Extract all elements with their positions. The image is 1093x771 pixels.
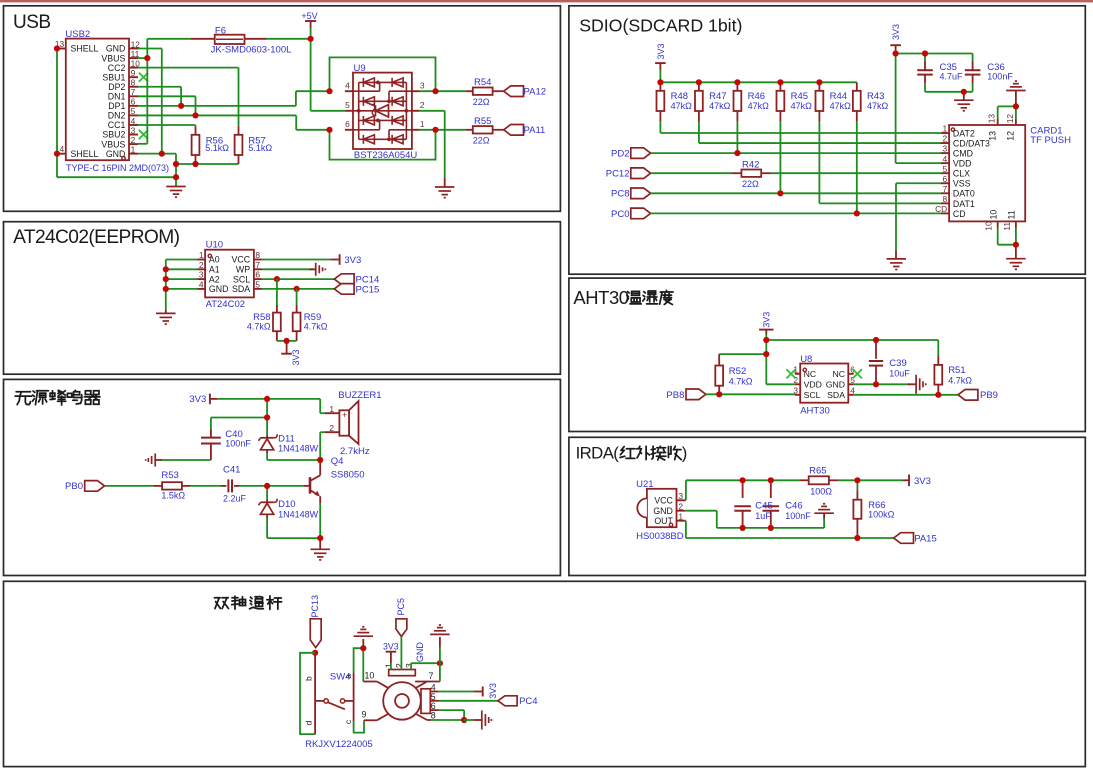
svg-text:GND: GND [415, 642, 425, 663]
svg-text:AHT30: AHT30 [573, 287, 628, 308]
svg-text:3: 3 [943, 144, 948, 154]
svg-text:1N4148W: 1N4148W [278, 509, 319, 519]
svg-text:PB9: PB9 [980, 390, 998, 401]
svg-text:3V3: 3V3 [383, 641, 399, 651]
svg-text:8: 8 [943, 194, 948, 204]
svg-text:1: 1 [199, 250, 204, 260]
svg-text:JK-SMD0603-100L: JK-SMD0603-100L [211, 45, 292, 56]
svg-text:13: 13 [987, 131, 997, 141]
svg-text:10: 10 [984, 221, 994, 231]
svg-text:2.7kHz: 2.7kHz [340, 446, 370, 457]
svg-text:2.2uF: 2.2uF [223, 494, 247, 504]
svg-text:U8: U8 [800, 354, 812, 365]
svg-text:2: 2 [678, 501, 683, 511]
svg-text:U21: U21 [636, 479, 653, 490]
svg-text:3: 3 [678, 491, 683, 501]
svg-text:8: 8 [255, 250, 260, 260]
svg-text:DAT1: DAT1 [953, 199, 975, 209]
svg-text:U10: U10 [206, 240, 223, 251]
svg-text:VDD: VDD [953, 159, 972, 169]
svg-text:5: 5 [345, 100, 350, 110]
svg-text:100nF: 100nF [987, 72, 1013, 82]
svg-text:3: 3 [793, 385, 798, 395]
svg-text:c: c [343, 719, 353, 724]
svg-text:WP: WP [236, 265, 250, 275]
svg-text:VDD: VDD [804, 380, 822, 390]
svg-text:7: 7 [131, 87, 136, 97]
svg-text:VCC: VCC [232, 255, 251, 265]
svg-text:NC: NC [832, 369, 845, 379]
svg-text:PC4: PC4 [519, 696, 537, 707]
svg-text:R52: R52 [729, 366, 746, 377]
svg-text:3: 3 [199, 270, 204, 280]
svg-text:22Ω: 22Ω [473, 135, 490, 145]
svg-text:PC15: PC15 [356, 284, 380, 295]
svg-text:PC5: PC5 [396, 598, 406, 616]
svg-text:4: 4 [199, 280, 204, 290]
svg-text:GND: GND [106, 44, 126, 54]
svg-text:4.7kΩ: 4.7kΩ [729, 377, 753, 387]
svg-text:a: a [343, 674, 353, 679]
svg-text:6: 6 [255, 270, 260, 280]
svg-text:10uF: 10uF [889, 368, 910, 378]
svg-text:+5V: +5V [301, 11, 317, 21]
svg-text:2: 2 [131, 135, 136, 145]
svg-text:7: 7 [255, 260, 260, 270]
svg-text:CMD: CMD [953, 149, 973, 159]
svg-text:AHT30: AHT30 [800, 406, 830, 417]
svg-text:PC12: PC12 [606, 169, 630, 180]
svg-text:8: 8 [131, 78, 136, 88]
svg-text:CD: CD [953, 209, 966, 219]
svg-text:5.1kΩ: 5.1kΩ [248, 143, 272, 153]
svg-text:PC0: PC0 [611, 209, 629, 220]
svg-text:R65: R65 [809, 466, 826, 477]
svg-text:8: 8 [431, 710, 436, 720]
svg-text:HS0038BD: HS0038BD [636, 531, 684, 542]
svg-text:5: 5 [131, 106, 136, 116]
svg-text:VSS: VSS [953, 179, 971, 189]
svg-text:7: 7 [943, 184, 948, 194]
svg-text:CC2: CC2 [108, 63, 126, 73]
svg-text:C41: C41 [223, 465, 240, 476]
svg-text:R42: R42 [742, 159, 759, 170]
svg-text:3: 3 [420, 81, 425, 91]
svg-text:1: 1 [131, 144, 136, 154]
svg-text:100kΩ: 100kΩ [868, 509, 895, 519]
svg-text:F6: F6 [215, 26, 226, 37]
svg-text:SDA: SDA [827, 390, 845, 400]
svg-text:4.7kΩ: 4.7kΩ [948, 375, 972, 385]
svg-text:BST236A054U: BST236A054U [354, 150, 418, 161]
svg-text:SHELL: SHELL [71, 149, 99, 159]
svg-text:PA15: PA15 [914, 534, 937, 545]
svg-text:DAT0: DAT0 [953, 189, 975, 199]
svg-text:): ) [682, 443, 688, 462]
svg-text:GND: GND [826, 380, 845, 390]
svg-text:4: 4 [131, 116, 136, 126]
svg-text:3V3: 3V3 [189, 394, 206, 405]
svg-text:PD2: PD2 [611, 149, 629, 160]
svg-text:CLX: CLX [953, 169, 970, 179]
svg-text:5: 5 [255, 280, 260, 290]
svg-text:IRDA(: IRDA( [576, 443, 620, 462]
svg-text:SCL: SCL [804, 390, 821, 400]
svg-text:VBUS: VBUS [101, 139, 125, 149]
svg-text:1: 1 [678, 511, 683, 521]
svg-text:2: 2 [199, 260, 204, 270]
svg-text:A0: A0 [209, 255, 220, 265]
svg-text:PB0: PB0 [65, 481, 83, 492]
svg-text:10: 10 [365, 670, 375, 680]
svg-text:22Ω: 22Ω [742, 179, 759, 189]
svg-text:11: 11 [1002, 222, 1012, 231]
svg-text:SBU1: SBU1 [102, 72, 125, 82]
svg-text:3V3: 3V3 [488, 683, 498, 699]
svg-text:PA11: PA11 [524, 125, 546, 136]
svg-text:U9: U9 [354, 63, 366, 74]
svg-text:11: 11 [1007, 210, 1017, 219]
svg-text:A1: A1 [209, 265, 220, 275]
svg-text:C46: C46 [785, 500, 802, 511]
svg-text:5: 5 [943, 164, 948, 174]
svg-text:VBUS: VBUS [101, 53, 125, 63]
svg-text:PC13: PC13 [310, 595, 320, 618]
svg-text:2: 2 [420, 100, 425, 110]
svg-text:6: 6 [345, 119, 350, 129]
svg-text:DP1: DP1 [108, 101, 125, 111]
svg-text:10: 10 [989, 210, 999, 220]
svg-text:3V3: 3V3 [891, 24, 901, 40]
svg-text:SBU2: SBU2 [102, 130, 125, 140]
svg-text:100nF: 100nF [225, 439, 251, 449]
svg-text:4.7kΩ: 4.7kΩ [304, 321, 328, 331]
svg-text:GND: GND [653, 506, 673, 516]
svg-text:9: 9 [362, 709, 367, 719]
svg-text:3: 3 [131, 125, 136, 135]
svg-text:47kΩ: 47kΩ [671, 101, 693, 111]
svg-text:4: 4 [345, 81, 350, 91]
svg-text:3V3: 3V3 [656, 43, 666, 59]
svg-text:1: 1 [793, 364, 798, 374]
svg-text:RKJXV1224005: RKJXV1224005 [305, 739, 373, 750]
svg-text:DN2: DN2 [108, 111, 126, 121]
svg-text:100nF: 100nF [785, 511, 811, 521]
svg-text:1uF: 1uF [755, 511, 771, 521]
svg-text:1: 1 [943, 124, 948, 134]
svg-text:4.7uF: 4.7uF [940, 72, 964, 82]
svg-text:R55: R55 [474, 116, 491, 127]
svg-text:12: 12 [1005, 114, 1015, 124]
svg-text:47kΩ: 47kΩ [867, 101, 889, 111]
svg-text:SDIO(SDCARD 1bit): SDIO(SDCARD 1bit) [579, 16, 742, 36]
svg-text:BUZZER1: BUZZER1 [338, 390, 381, 401]
svg-text:47kΩ: 47kΩ [791, 101, 813, 111]
svg-text:SCL: SCL [233, 274, 250, 284]
svg-text:3V3: 3V3 [914, 476, 931, 487]
svg-text:SDA: SDA [232, 284, 250, 294]
svg-text:OUT: OUT [654, 516, 673, 526]
svg-text:CD/DAT3: CD/DAT3 [953, 138, 990, 148]
svg-text:4.7kΩ: 4.7kΩ [247, 321, 271, 331]
svg-text:3V3: 3V3 [291, 349, 301, 365]
svg-text:TYPE-C 16PIN 2MD(073): TYPE-C 16PIN 2MD(073) [66, 163, 169, 173]
svg-text:6: 6 [131, 97, 136, 107]
svg-text:SS8050: SS8050 [331, 470, 365, 481]
svg-text:PA12: PA12 [524, 87, 547, 98]
svg-text:1: 1 [420, 119, 425, 129]
svg-text:1N4148W: 1N4148W [278, 444, 319, 454]
svg-text:1.5kΩ: 1.5kΩ [161, 491, 185, 501]
svg-text:AT24C02(EEPROM): AT24C02(EEPROM) [13, 227, 180, 248]
svg-text:5.1kΩ: 5.1kΩ [205, 143, 229, 153]
svg-text:DN1: DN1 [108, 92, 126, 102]
svg-text:C45: C45 [755, 500, 772, 511]
svg-text:R53: R53 [161, 470, 178, 481]
svg-text:3V3: 3V3 [344, 255, 361, 266]
svg-text:47kΩ: 47kΩ [748, 101, 770, 111]
svg-text:2: 2 [329, 423, 334, 433]
svg-text:DAT2: DAT2 [953, 128, 975, 138]
svg-text:+: + [342, 410, 347, 420]
svg-text:A2: A2 [209, 274, 220, 284]
svg-text:DP2: DP2 [108, 82, 125, 92]
svg-text:USB: USB [13, 12, 51, 33]
svg-text:PB8: PB8 [666, 390, 684, 401]
svg-text:SHELL: SHELL [71, 44, 99, 54]
svg-text:b: b [303, 676, 313, 681]
svg-text:6: 6 [943, 174, 948, 184]
svg-text:13: 13 [987, 114, 997, 124]
svg-text:CC1: CC1 [108, 120, 126, 130]
svg-text:VCC: VCC [654, 496, 673, 506]
svg-text:9: 9 [131, 68, 136, 78]
svg-text:Q4: Q4 [331, 456, 344, 467]
svg-text:47kΩ: 47kΩ [709, 101, 731, 111]
svg-text:3V3: 3V3 [762, 312, 772, 328]
svg-text:1: 1 [384, 663, 394, 668]
svg-text:2: 2 [943, 134, 948, 144]
svg-text:7: 7 [429, 671, 434, 681]
svg-text:d: d [303, 721, 313, 726]
svg-text:GND: GND [209, 284, 229, 294]
svg-text:R54: R54 [474, 77, 491, 88]
svg-text:TF PUSH: TF PUSH [1030, 135, 1071, 146]
svg-text:NC: NC [804, 369, 817, 379]
svg-text:4: 4 [943, 154, 948, 164]
svg-text:12: 12 [1006, 131, 1016, 141]
svg-text:22Ω: 22Ω [473, 97, 490, 107]
svg-text:CD: CD [935, 204, 947, 214]
svg-text:1: 1 [329, 404, 334, 414]
svg-text:100Ω: 100Ω [810, 487, 832, 497]
svg-text:PC8: PC8 [611, 189, 629, 200]
svg-text:AT24C02: AT24C02 [206, 299, 245, 310]
svg-text:47kΩ: 47kΩ [830, 101, 852, 111]
svg-text:USB2: USB2 [65, 29, 90, 40]
